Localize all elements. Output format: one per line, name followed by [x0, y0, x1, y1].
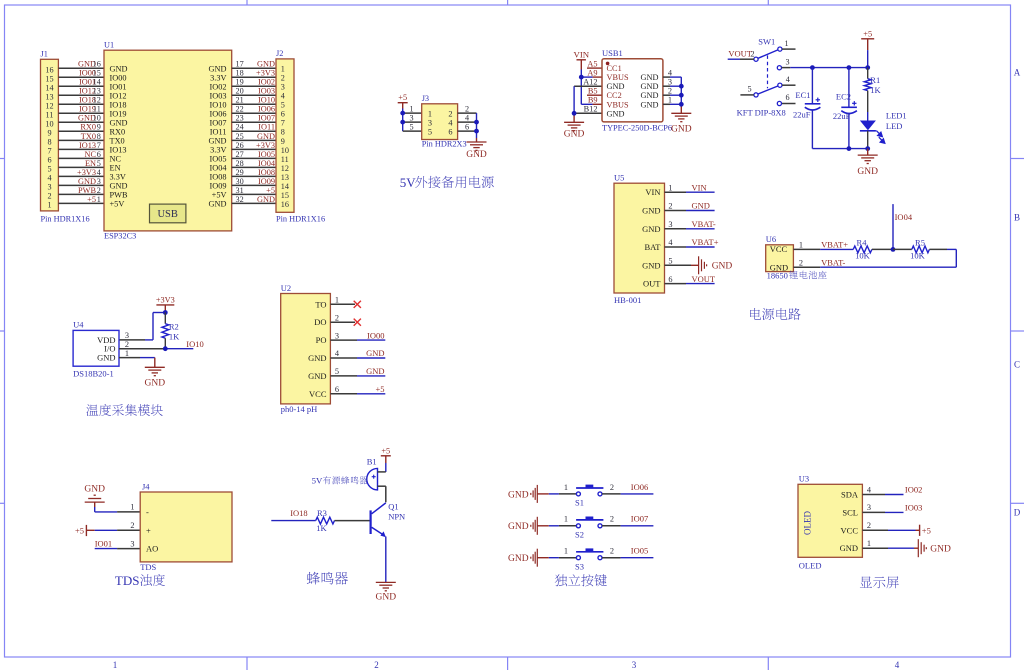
svg-text:4: 4 [895, 660, 900, 670]
svg-text:IO00: IO00 [367, 330, 384, 340]
svg-text:+5: +5 [266, 186, 275, 195]
wire R5 to VBAT- loop [793, 249, 956, 267]
svg-text:+5V: +5V [110, 199, 125, 208]
svg-text:GND: GND [840, 543, 858, 553]
svg-text:5: 5 [281, 101, 285, 110]
svg-text:GND: GND [466, 150, 487, 160]
wire SW1 pin3 to power rail [782, 67, 813, 69]
ground symbol left of USB1 [564, 122, 585, 139]
section title display [860, 576, 899, 588]
SW1 pin numbers [747, 39, 789, 102]
svg-text:IO05: IO05 [209, 154, 226, 163]
svg-text:D: D [1014, 508, 1021, 518]
power flag +5 (top right) [861, 30, 874, 68]
svg-text:CC1: CC1 [607, 64, 622, 73]
svg-text:31: 31 [236, 186, 244, 195]
pin stub CC1 [587, 67, 602, 69]
svg-text:+3V3: +3V3 [77, 168, 96, 177]
svg-text:5: 5 [47, 165, 51, 174]
svg-text:A9: A9 [587, 68, 597, 77]
svg-text:3: 3 [409, 113, 413, 122]
svg-text:GND: GND [607, 82, 625, 91]
svg-text:1: 1 [428, 109, 432, 118]
svg-text:B12: B12 [584, 105, 598, 114]
svg-text:22: 22 [236, 105, 244, 114]
svg-text:OLED: OLED [803, 511, 813, 535]
svg-text:GND: GND [145, 378, 166, 388]
svg-text:1K: 1K [169, 331, 180, 341]
svg-text:3: 3 [428, 118, 432, 127]
svg-text:2: 2 [335, 313, 339, 322]
svg-text:IO03: IO03 [258, 87, 275, 96]
svg-text:3: 3 [335, 331, 339, 340]
svg-text:5: 5 [747, 84, 751, 93]
svg-text:12: 12 [93, 96, 101, 105]
svg-text:1: 1 [47, 201, 51, 210]
svg-text:GND: GND [78, 177, 96, 186]
battery holder U6 18650 [766, 234, 827, 280]
svg-text:25: 25 [236, 132, 244, 141]
svg-text:EC2: EC2 [836, 92, 851, 102]
wire I/O with net label IO10 [119, 339, 204, 349]
svg-text:22uF: 22uF [833, 111, 851, 121]
svg-text:U4: U4 [73, 320, 84, 330]
svg-text:GND: GND [508, 490, 529, 500]
svg-text:6: 6 [281, 110, 285, 119]
svg-text:VBUS: VBUS [607, 73, 630, 82]
svg-text:LED1: LED1 [886, 111, 907, 121]
svg-text:USB: USB [157, 209, 177, 220]
svg-text:VBUS: VBUS [607, 100, 630, 109]
svg-text:GND: GND [671, 124, 692, 134]
svg-text:OLED: OLED [799, 560, 822, 570]
svg-text:14: 14 [45, 84, 53, 93]
svg-text:U3: U3 [799, 473, 809, 483]
svg-text:IO08: IO08 [209, 172, 226, 181]
svg-text:A5: A5 [587, 59, 597, 68]
S1 pin numbers [564, 483, 614, 492]
svg-text:GND: GND [257, 132, 275, 141]
power flag +3V3 [156, 295, 175, 312]
U1 right pin numbers 17-32 [236, 60, 244, 204]
capacitor EC2 22uF [833, 68, 857, 149]
wire GND to S1 pin1 [537, 493, 576, 495]
svg-text:PO: PO [316, 335, 327, 345]
svg-text:IO04: IO04 [895, 212, 913, 222]
svg-text:TX0: TX0 [81, 132, 96, 141]
svg-text:GND: GND [209, 64, 227, 73]
USB1 pin numbers A5-B12 [583, 59, 597, 113]
svg-text:20: 20 [236, 87, 244, 96]
ground symbol at S1 [508, 485, 537, 503]
svg-text:15: 15 [93, 69, 101, 78]
svg-text:4: 4 [465, 113, 469, 122]
svg-text:12: 12 [45, 102, 53, 111]
svg-text:IO12: IO12 [110, 91, 127, 100]
svg-text:IO09: IO09 [258, 177, 275, 186]
S2 pin numbers [564, 515, 614, 524]
svg-text:11: 11 [46, 111, 54, 120]
switch SW1 KFT DIP-8X8 [737, 36, 786, 117]
svg-text:1: 1 [668, 96, 672, 105]
svg-text:-: - [146, 507, 149, 517]
svg-text:3: 3 [125, 331, 129, 340]
svg-text:GND: GND [508, 522, 529, 532]
svg-text:IO04: IO04 [258, 159, 276, 168]
svg-text:C: C [1014, 360, 1020, 370]
svg-text:2: 2 [668, 202, 672, 211]
junction dots J3 right [474, 120, 479, 134]
svg-text:4: 4 [668, 238, 673, 247]
net label IO03 wire [862, 502, 922, 512]
junction dot IO04 [891, 247, 896, 252]
svg-text:VIN: VIN [692, 182, 707, 192]
svg-text:VBAT+: VBAT+ [692, 237, 719, 247]
ground symbol U4 [145, 367, 166, 388]
net label VBAT+ wire [793, 240, 853, 250]
svg-text:U1: U1 [104, 41, 114, 50]
svg-text:5V: 5V [400, 175, 417, 190]
svg-text:GND: GND [607, 109, 625, 118]
svg-text:24: 24 [236, 123, 244, 132]
svg-text:TDS: TDS [115, 573, 140, 588]
svg-text:2: 2 [97, 186, 101, 195]
svg-text:IO02: IO02 [258, 78, 275, 87]
svg-text:IO00: IO00 [110, 73, 127, 82]
svg-text:U5: U5 [614, 172, 624, 182]
svg-text:IO03: IO03 [905, 502, 922, 512]
svg-text:21: 21 [236, 96, 244, 105]
svg-text:3: 3 [130, 539, 134, 548]
J4 pin numbers 1-3 [130, 503, 134, 549]
net label IO06 wire [602, 482, 653, 494]
U6 pin numbers [799, 241, 803, 268]
buzzer value label [312, 476, 368, 486]
svg-text:23: 23 [236, 114, 244, 123]
resistor R3 1K [316, 508, 370, 533]
svg-text:SCL: SCL [842, 507, 858, 517]
push button S3 [575, 548, 603, 571]
svg-text:B: B [1014, 213, 1020, 223]
junction dot +3V3/R2 [163, 310, 168, 315]
svg-text:2: 2 [610, 515, 614, 524]
svg-text:J2: J2 [276, 49, 283, 58]
wire bottom rail [812, 148, 867, 150]
svg-text:VBAT+: VBAT+ [821, 240, 848, 250]
svg-text:5: 5 [409, 122, 413, 131]
svg-text:GND: GND [857, 167, 878, 177]
svg-text:ESP32C3: ESP32C3 [104, 232, 136, 241]
svg-text:1: 1 [564, 483, 568, 492]
ground symbol buzzer [376, 582, 397, 602]
svg-text:6: 6 [465, 122, 469, 131]
wires J1 to U1 (16 rows) [58, 68, 104, 203]
svg-text:2: 2 [465, 104, 469, 113]
svg-text:2: 2 [799, 258, 803, 267]
svg-text:IO05: IO05 [631, 546, 648, 556]
connector J1 (Pin HDR1X16) [41, 50, 90, 224]
svg-text:2: 2 [125, 340, 129, 349]
power flag VIN [573, 50, 589, 70]
svg-text:19: 19 [236, 78, 244, 87]
svg-text:VBAT-: VBAT- [692, 219, 716, 229]
svg-text:4: 4 [335, 349, 340, 358]
ground symbol at U3 GND [862, 539, 951, 557]
wires USB1 right GND pins [663, 77, 681, 113]
svg-text:6: 6 [97, 150, 101, 159]
svg-text:VOUT: VOUT [728, 48, 752, 58]
svg-text:IO07: IO07 [209, 118, 226, 127]
svg-text:3: 3 [867, 503, 871, 512]
svg-text:PWB: PWB [78, 186, 96, 195]
svg-text:S2: S2 [575, 530, 584, 540]
svg-text:IO13: IO13 [110, 145, 127, 154]
resistor R2 1K [162, 313, 180, 349]
svg-text:1K: 1K [316, 523, 327, 533]
svg-text:J3: J3 [422, 94, 429, 103]
junction dot B12 [572, 111, 577, 116]
U3 pin numbers 4-1 [867, 485, 872, 548]
svg-text:2: 2 [668, 86, 672, 95]
svg-text:1: 1 [281, 65, 285, 74]
svg-text:13: 13 [45, 93, 53, 102]
svg-text:R1: R1 [870, 75, 880, 85]
svg-text:2: 2 [130, 521, 134, 530]
svg-text:GND: GND [564, 130, 585, 140]
svg-text:1: 1 [668, 183, 672, 192]
U4 pin numbers 3,2,1 [125, 331, 129, 358]
wire GND to S2 pin1 [537, 525, 576, 527]
section title TDS turbidity [115, 573, 165, 588]
svg-text:14: 14 [281, 182, 289, 191]
svg-text:GND: GND [97, 353, 115, 363]
svg-text:3: 3 [281, 83, 285, 92]
buzzer B1 [367, 457, 386, 490]
svg-text:TDS: TDS [140, 562, 156, 572]
connector J3 (Pin HDR2X3) [409, 94, 469, 149]
U2 pin1 no-connect [330, 301, 361, 308]
svg-text:Pin HDR2X3: Pin HDR2X3 [422, 140, 467, 149]
svg-text:30: 30 [236, 177, 244, 186]
svg-text:AO: AO [146, 544, 158, 554]
svg-text:GND: GND [641, 100, 659, 109]
U1 left net labels [77, 60, 96, 204]
net label IO05 wire [602, 546, 653, 558]
svg-text:18650: 18650 [767, 270, 788, 280]
svg-text:4: 4 [867, 485, 872, 494]
svg-text:KFT DIP-8X8: KFT DIP-8X8 [737, 107, 786, 117]
ground symbol at S2 [508, 517, 537, 535]
svg-text:+3V3: +3V3 [256, 141, 275, 150]
wire +5 to J3 pins 1,3,5 [403, 109, 422, 132]
svg-text:10: 10 [45, 120, 53, 129]
svg-text:IO13: IO13 [79, 141, 96, 150]
svg-text:6: 6 [785, 93, 789, 102]
IC U1 ESP32C3 [104, 41, 232, 241]
svg-text:14: 14 [93, 78, 101, 87]
svg-text:GND: GND [930, 544, 951, 554]
svg-text:2: 2 [610, 483, 614, 492]
svg-text:GND: GND [641, 91, 659, 100]
svg-text:HB-001: HB-001 [614, 295, 641, 305]
net label IO18 wire [271, 508, 315, 520]
svg-text:GND: GND [110, 118, 128, 127]
svg-text:IO04: IO04 [209, 163, 227, 172]
svg-text:IO06: IO06 [631, 482, 648, 492]
svg-text:SDA: SDA [841, 490, 859, 500]
connector USB1 TYPEC-250D-BCP6 [602, 48, 672, 132]
svg-text:3.3V: 3.3V [210, 145, 226, 154]
svg-text:B9: B9 [588, 96, 598, 105]
ground symbol at J3 [466, 142, 487, 160]
svg-text:IO02: IO02 [905, 485, 922, 495]
module U2 ph0-14 pH [281, 283, 331, 414]
svg-text:4: 4 [668, 68, 673, 77]
svg-text:7: 7 [97, 141, 101, 150]
svg-text:1: 1 [784, 39, 788, 48]
svg-text:17: 17 [236, 60, 244, 69]
svg-text:8: 8 [97, 132, 101, 141]
wire top rail [812, 67, 868, 69]
svg-text:OUT: OUT [643, 279, 661, 289]
ground symbol at U5 pin5 [691, 256, 732, 274]
svg-text:VIN: VIN [573, 50, 589, 60]
svg-text:IO18: IO18 [110, 100, 127, 109]
svg-text:1: 1 [130, 503, 134, 512]
svg-text:U6: U6 [766, 234, 776, 244]
IC U4 DS18B20-1 [73, 320, 119, 379]
svg-text:GND: GND [257, 195, 275, 204]
svg-text:DO: DO [314, 317, 326, 327]
U2 net label wires [330, 330, 385, 394]
U1 left pin numbers 16-1 [93, 60, 101, 204]
svg-text:11: 11 [93, 105, 101, 114]
power flag +5 at J3 [398, 93, 408, 109]
svg-text:J4: J4 [142, 481, 150, 491]
svg-text:ph0-14 pH: ph0-14 pH [281, 404, 318, 414]
USB sub-block inside U1 [150, 204, 186, 223]
svg-text:7: 7 [47, 147, 51, 156]
svg-text:2: 2 [610, 547, 614, 556]
ground symbol power rail [857, 149, 878, 177]
svg-text:GND: GND [366, 348, 384, 358]
svg-text:+5: +5 [398, 93, 407, 102]
svg-text:+3V3: +3V3 [256, 69, 275, 78]
svg-text:GND: GND [641, 82, 659, 91]
svg-text:+: + [146, 525, 151, 535]
junction dots J3 left [400, 111, 405, 125]
svg-text:VBAT-: VBAT- [821, 257, 845, 267]
net label IO07 wire [602, 514, 653, 526]
svg-text:10K: 10K [910, 250, 926, 260]
resistor R4 10K [853, 237, 893, 260]
svg-text:GND: GND [308, 371, 326, 381]
ground symbol right of USB1 [671, 113, 692, 134]
svg-text:2: 2 [374, 660, 379, 670]
section title temperature module [86, 404, 162, 416]
svg-text:S3: S3 [575, 561, 584, 571]
svg-text:4: 4 [47, 174, 51, 183]
module U5 HB-001 [614, 172, 665, 305]
svg-text:1: 1 [113, 660, 118, 670]
svg-text:9: 9 [97, 123, 101, 132]
svg-text:1: 1 [867, 539, 871, 548]
inverted ground symbol at J4 [84, 484, 105, 507]
svg-text:2: 2 [47, 192, 51, 201]
svg-text:GND: GND [209, 199, 227, 208]
svg-text:6: 6 [448, 127, 452, 136]
transistor Q1 NPN [371, 501, 406, 537]
svg-text:Pin HDR1X16: Pin HDR1X16 [41, 214, 90, 223]
wire GND pin to ground [119, 358, 155, 368]
svg-text:+5: +5 [381, 446, 390, 455]
junction dot I/O [163, 346, 168, 351]
svg-text:Q1: Q1 [388, 501, 398, 511]
svg-text:GND: GND [110, 64, 128, 73]
svg-text:18: 18 [236, 69, 244, 78]
wire VDD to +3V3 [119, 313, 165, 340]
wires USB1 GND pins A12/B12 to ground [574, 86, 602, 122]
svg-text:J1: J1 [41, 50, 48, 59]
svg-text:EC1: EC1 [795, 90, 810, 100]
svg-text:3.3V: 3.3V [210, 73, 226, 82]
svg-text:10: 10 [281, 146, 289, 155]
svg-text:IO03: IO03 [209, 91, 226, 100]
svg-text:15: 15 [45, 75, 53, 84]
S3 pin numbers [564, 547, 614, 556]
svg-text:6: 6 [47, 156, 51, 165]
svg-text:29: 29 [236, 168, 244, 177]
svg-text:PWB: PWB [110, 190, 128, 199]
svg-text:3: 3 [97, 177, 101, 186]
section title 5V backup supply [400, 175, 494, 190]
wire VIN to USB1 VBUS pins [581, 70, 602, 105]
svg-text:28: 28 [236, 159, 244, 168]
power flag +5 at buzzer [381, 446, 391, 472]
resistor R1 1K [864, 68, 881, 121]
SW1 pin stub wires [740, 49, 795, 103]
svg-text:VOUT: VOUT [692, 274, 716, 284]
svg-text:NC: NC [84, 150, 96, 159]
module U3 OLED [798, 473, 862, 570]
U5 pin wires and net labels [665, 182, 719, 283]
svg-text:TYPEC-250D-BCP6: TYPEC-250D-BCP6 [602, 123, 672, 132]
svg-text:SW1: SW1 [758, 36, 775, 46]
svg-text:+5: +5 [75, 525, 84, 535]
power flag +5 at U3 VCC [862, 525, 930, 536]
svg-text:1: 1 [799, 241, 803, 250]
wires U1 to J2 (16 rows) [232, 68, 276, 203]
svg-text:IO07: IO07 [258, 114, 275, 123]
wire emitter to ground [385, 537, 387, 583]
ground symbol at S3 [508, 549, 537, 567]
svg-text:R3: R3 [317, 508, 327, 518]
svg-text:15: 15 [281, 191, 289, 200]
svg-text:LED: LED [886, 121, 903, 131]
svg-text:3: 3 [668, 220, 672, 229]
svg-text:10: 10 [93, 114, 101, 123]
svg-text:GND: GND [642, 260, 660, 270]
svg-text:16: 16 [45, 66, 53, 75]
svg-text:R2: R2 [169, 321, 179, 331]
svg-text:GND: GND [257, 60, 275, 69]
svg-text:IO07: IO07 [631, 514, 648, 524]
svg-text:S1: S1 [575, 498, 584, 508]
svg-text:26: 26 [236, 141, 244, 150]
svg-text:IO19: IO19 [110, 109, 127, 118]
svg-text:IO10: IO10 [258, 96, 275, 105]
svg-text:IO11: IO11 [258, 123, 275, 132]
